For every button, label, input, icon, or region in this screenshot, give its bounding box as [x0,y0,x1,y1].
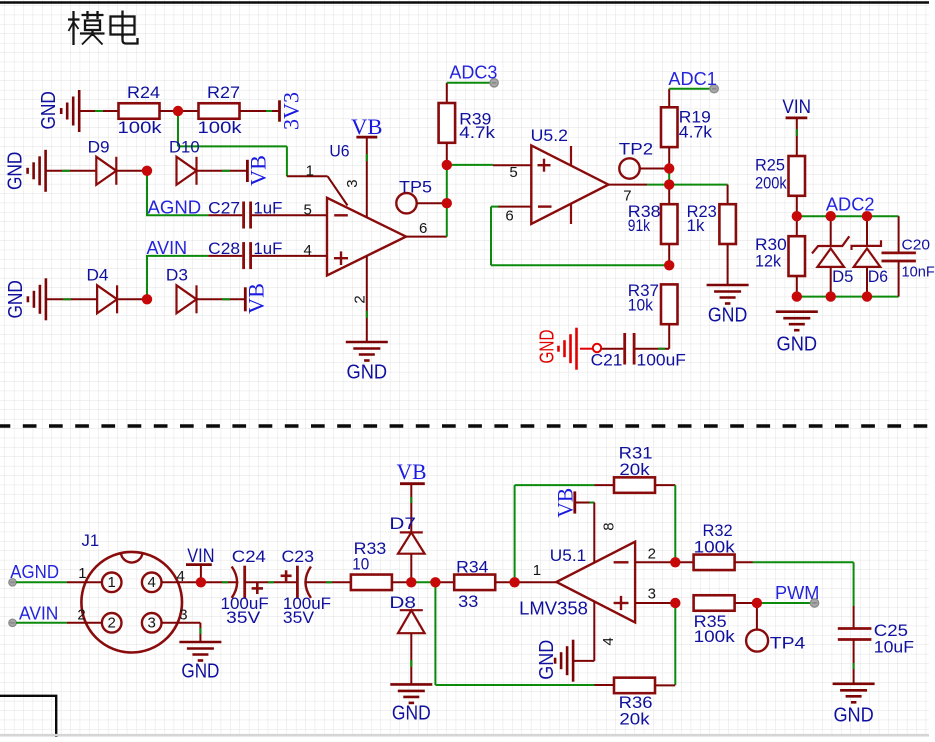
svg-text:TP5: TP5 [399,177,432,196]
pin 3 wire of U5.1 [635,585,675,603]
ground GND (C25) [833,684,875,727]
svg-text:D8: D8 [389,593,416,612]
wire VIN to C24 [201,581,238,583]
svg-text:12k: 12k [755,252,782,271]
diode D4 [87,266,118,314]
svg-text:PWM: PWM [775,583,819,603]
svg-text:D6: D6 [868,267,888,286]
node junction R24/R27 [173,106,183,116]
svg-text:4.7k: 4.7k [459,123,495,142]
svg-text:U5.1: U5.1 [550,546,586,565]
power port VIN (top right) [782,97,811,118]
ground GND (U6) [346,342,388,384]
diode D9 [88,137,117,184]
wire GND to R24 [79,110,118,112]
node junction PWM [752,598,762,608]
title 模电 (drawn strokes) [68,11,138,46]
op-amp U6 [327,142,406,276]
svg-text:VB: VB [351,114,383,139]
svg-text:C21: C21 [591,351,623,370]
node junction D5 top [826,211,836,221]
svg-text:1: 1 [78,565,86,582]
wire VIN to R25 [796,118,798,156]
svg-text:VIN: VIN [782,97,811,118]
svg-text:35V: 35V [226,608,261,627]
node junction D6 top [862,211,872,221]
pin 6 wire of U6 [406,220,447,237]
svg-text:3: 3 [648,585,656,602]
wire C23 to R33 [305,581,351,583]
node junction R34 branch [430,577,440,587]
svg-text:100k: 100k [118,118,163,137]
node junction R25/R30 ADC2 [792,211,802,221]
svg-text:J1: J1 [82,531,100,550]
wire R34 to pin1 node [495,581,514,583]
ground GND (R23) [707,285,749,327]
node junction pin2 [670,557,680,567]
svg-text:2: 2 [351,295,368,303]
svg-text:VB: VB [243,283,268,314]
svg-text:ADC1: ADC1 [668,69,716,89]
power ground GND (U5.1) [536,640,573,682]
node junction D7/D8 [406,577,416,587]
svg-text:20k: 20k [619,460,650,479]
wire R27 to 3V3 [240,110,280,112]
pin 2 wire of J1 [67,606,102,623]
power port VB (U5.1 pin8) [552,488,577,518]
svg-text:3V3: 3V3 [278,92,303,130]
capacitor C27 [208,199,327,229]
wire AGND to C27 [146,214,208,216]
section divider dashed line [0,424,929,428]
zener diode D6 [852,216,889,296]
svg-text:100k: 100k [694,537,736,556]
power port VIN (J1) [186,546,215,582]
svg-text:4: 4 [148,574,156,591]
svg-text:3: 3 [148,615,156,632]
test point TP4 [746,603,805,652]
ground GND (J1) [179,642,221,683]
svg-text:100k: 100k [694,627,736,646]
svg-text:4: 4 [600,637,617,645]
resistor R34 [454,558,495,611]
wire junction down to AGND net [178,111,287,176]
svg-text:D5: D5 [832,267,853,286]
pin 1 wire of J1 [67,565,102,582]
resistor R25 [755,156,805,217]
wire between junctions R19 column [668,169,670,185]
power port VB (D3) [243,283,268,314]
wire R33 to D7 node [392,581,411,583]
svg-text:4: 4 [177,568,185,585]
svg-text:C20: C20 [902,236,931,253]
node TP2 junction [664,163,674,173]
op-amp U5.1 [519,542,635,623]
resistor R30 [755,216,805,296]
svg-text:GND: GND [5,280,27,319]
svg-text:10: 10 [352,554,369,573]
svg-text:4.7k: 4.7k [679,122,713,141]
op-amp U5.2 [531,126,609,224]
node junction R30 bottom [792,291,802,301]
power ground GND (top left) [38,90,79,132]
svg-text:AVIN: AVIN [19,603,58,623]
capacitor C20 [882,216,935,296]
wire AVIN down to D4 junction [146,256,148,299]
node junction VIN [196,577,206,587]
pin 1 wire of U6 [287,163,348,206]
svg-text:GND: GND [347,362,388,384]
pin 4 wire of J1 [162,568,201,585]
net label PWM with no-ERC dot [757,583,820,607]
capacitor C28 [208,239,327,269]
wire feedback left vertical [435,582,613,685]
node TP5 junction [442,198,452,208]
svg-text:D7: D7 [389,514,416,533]
wire pin6 U5.2 feedback [491,207,669,266]
wire junction to R34 [435,581,454,583]
svg-text:GND: GND [5,152,27,191]
test point TP2 [619,139,669,178]
sheet title-block corner [0,696,56,737]
resistor R33 [351,539,392,590]
svg-text:GND: GND [536,640,558,680]
pin 7 output wire U5.2 [608,185,669,205]
resistor R37 [628,281,678,349]
wire pin7 to R23 [669,184,727,186]
node junction R39 bottom [442,160,452,170]
svg-text:35V: 35V [283,608,315,627]
capacitor C23 polarized [281,547,331,627]
svg-text:5: 5 [509,164,517,181]
net label AVIN (J1) with no-ERC dot [9,603,67,626]
node junction D6 bottom [862,291,872,301]
diode D10 [169,137,200,184]
wire between junctions [411,581,435,583]
zener diode D5 [812,216,853,296]
power ground GND (D4 row) [5,278,46,320]
power ground GND red (C21) [537,328,602,370]
wire R32 to C25 [753,562,854,628]
wire GND to D4 [46,298,97,300]
node junction D5 bottom [826,291,836,301]
svg-text:D9: D9 [88,137,110,156]
svg-text:C24: C24 [232,547,266,566]
svg-text:GND: GND [392,702,431,724]
svg-text:GND: GND [181,661,219,683]
sheet top border [0,1,929,3]
pin 2 of U6 [351,256,368,342]
capacitor C21 [591,333,686,370]
pin 2 wire of U5.1 [635,546,675,563]
power ground GND (D9 row) [5,150,46,192]
wire pin1 node up to R31 [515,485,614,582]
wire pin5 U5.2 [447,164,532,181]
net label AGND (J1) with no-ERC dot [9,562,67,586]
svg-text:2: 2 [648,546,656,563]
svg-text:R27: R27 [207,83,240,102]
pin 1 wire of U5.1 [515,562,557,582]
svg-text:2: 2 [108,615,116,632]
svg-text:D10: D10 [169,137,200,156]
resistor R27 [198,83,243,137]
wire ADC3 node vertical [446,165,448,237]
resistor R32 [675,521,753,570]
svg-text:R24: R24 [127,83,160,102]
connector J1 [81,531,182,653]
wire GND to D9 [46,170,97,172]
resistor R31 [614,444,655,493]
resistor R38 [628,185,678,266]
svg-text:C23: C23 [282,547,315,566]
ground GND (R30) [776,312,818,356]
pin 8 of U5.1 [575,503,618,563]
svg-text:10uF: 10uF [874,637,914,656]
svg-text:4: 4 [304,242,312,259]
pin 4 of U5.1 [573,602,617,661]
svg-text:100uF: 100uF [637,351,686,370]
svg-text:10nF: 10nF [902,263,935,280]
svg-text:VB: VB [397,459,427,484]
capacitor C24 polarized [221,547,269,627]
svg-text:1uF: 1uF [253,239,282,258]
svg-text:8: 8 [600,522,617,530]
svg-text:R34: R34 [456,558,488,577]
ground GND (D8) [390,684,432,724]
resistor R23 [687,185,736,285]
node junction D4/D3 [142,294,152,304]
power port VB (U6 pin3) [351,114,383,139]
svg-text:VB: VB [245,155,270,186]
power port VB (D10) [245,155,270,186]
svg-text:91k: 91k [628,216,651,235]
svg-text:C27: C27 [208,199,240,218]
svg-text:ADC3: ADC3 [449,63,497,83]
wire bottom rail (D5 D6 C20) [797,296,899,298]
svg-text:2: 2 [77,606,85,623]
svg-text:6: 6 [505,208,513,225]
power port 3V3 [278,92,303,130]
svg-text:C28: C28 [208,239,240,258]
sheet bottom edge [0,734,929,737]
wire D9 to junction [117,170,147,172]
svg-text:D4: D4 [87,266,109,285]
wire AVIN to C28 [146,255,208,257]
node pin7 junction [664,179,674,189]
node junction R38/R37 [664,260,674,270]
svg-text:10k: 10k [628,296,654,315]
pin 3 of U6 [344,137,367,217]
diode D8 [389,593,424,684]
wire R24 to junction to R27 [160,110,199,112]
wire junction down to AGND wire [146,171,148,216]
svg-text:GND: GND [537,330,559,364]
net label ADC3 with no-ERC dot [447,63,499,87]
svg-text:R25: R25 [755,156,785,175]
svg-text:1uF: 1uF [253,199,282,218]
test point TP5 [396,177,447,213]
wire D3 to VB [197,298,246,300]
diode D3 [166,266,197,314]
pin 3 wire of J1 [162,606,201,642]
svg-text:AGND: AGND [10,562,59,582]
svg-text:20k: 20k [619,709,650,728]
svg-text:6: 6 [419,220,427,237]
resistor R36 [614,678,675,729]
node junction D9/D10 [142,166,152,176]
node junction pin1 [509,577,519,587]
svg-text:GND: GND [833,704,873,726]
svg-text:1: 1 [108,574,116,591]
svg-text:LMV358: LMV358 [519,598,588,619]
svg-text:100k: 100k [198,118,243,137]
resistor R19 [661,89,713,169]
svg-text:5: 5 [304,202,312,219]
power port VB (D7) [397,459,427,484]
svg-text:3: 3 [344,179,361,187]
wire ADC2 top rail [797,215,899,217]
svg-text:200k: 200k [755,173,787,192]
node junction pin3 [670,598,680,608]
svg-text:U5.2: U5.2 [531,126,568,145]
wire C24 to C23 [245,581,298,583]
svg-text:D3: D3 [166,266,188,285]
wire D10 to VB [197,170,248,172]
diode D7 [389,484,424,583]
svg-text:GND: GND [38,91,60,130]
svg-text:3: 3 [179,606,187,623]
wire D4 to junction [118,298,147,300]
resistor R39 [439,83,496,165]
svg-text:TP2: TP2 [619,139,653,158]
svg-text:1: 1 [533,562,541,579]
capacitor C25 [838,621,914,684]
svg-text:U6: U6 [329,142,349,161]
wire pin3 column down to R36 [674,603,676,685]
resistor R35 [694,595,757,646]
svg-text:TP4: TP4 [770,633,806,652]
net label ADC1 with no-ERC dot [668,69,718,93]
wire R31 to pin2 column [655,485,675,562]
svg-text:33: 33 [458,592,478,611]
svg-text:VB: VB [552,488,577,518]
svg-text:GND: GND [777,333,818,355]
svg-text:GND: GND [708,305,747,327]
resistor R24 [118,83,163,137]
svg-text:1k: 1k [687,216,705,235]
svg-text:1: 1 [306,163,314,180]
